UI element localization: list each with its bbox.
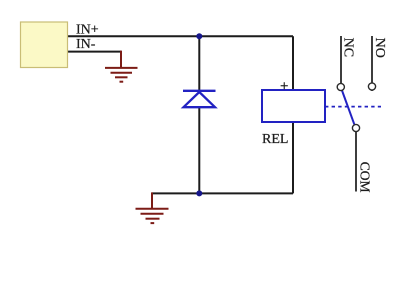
- relay coil REL: [262, 90, 325, 122]
- diode D1 (flyback, cathode up): [183, 91, 216, 107]
- node junction top (diode tap on IN+ rail): [196, 33, 202, 39]
- svg-text:COM: COM: [358, 162, 373, 193]
- svg-text:NC: NC: [341, 38, 356, 57]
- wire IN+ (top rail from input block to relay): [68, 35, 294, 37]
- svg-text:REL: REL: [262, 132, 288, 147]
- wire NO terminal: [371, 36, 373, 91]
- svg-text:IN-: IN-: [76, 37, 96, 52]
- ground (bottom): [136, 192, 169, 223]
- contact pin NO: [368, 83, 375, 90]
- actuation link (dashed, coil to contact arm): [325, 106, 381, 108]
- node junction bottom (diode to bottom rail): [196, 190, 202, 196]
- wire COM terminal: [355, 132, 357, 192]
- contact pin COM: [352, 124, 359, 131]
- contact pin NC: [337, 83, 344, 90]
- wire relay branch (vertical through relay position): [292, 36, 294, 193]
- switch arm (blue, NC to COM): [342, 91, 354, 125]
- wire bottom rail (relay bottom to ground): [152, 192, 293, 194]
- wire diode branch (vertical through diode position): [198, 36, 200, 193]
- svg-text:IN+: IN+: [76, 22, 99, 37]
- ground (input side): [105, 51, 138, 82]
- svg-text:NO: NO: [372, 38, 387, 58]
- svg-text:+: +: [280, 78, 288, 94]
- input terminal block J1: [21, 22, 68, 68]
- wire NC terminal: [340, 36, 342, 87]
- wire IN- (from input block to ground): [68, 51, 122, 53]
